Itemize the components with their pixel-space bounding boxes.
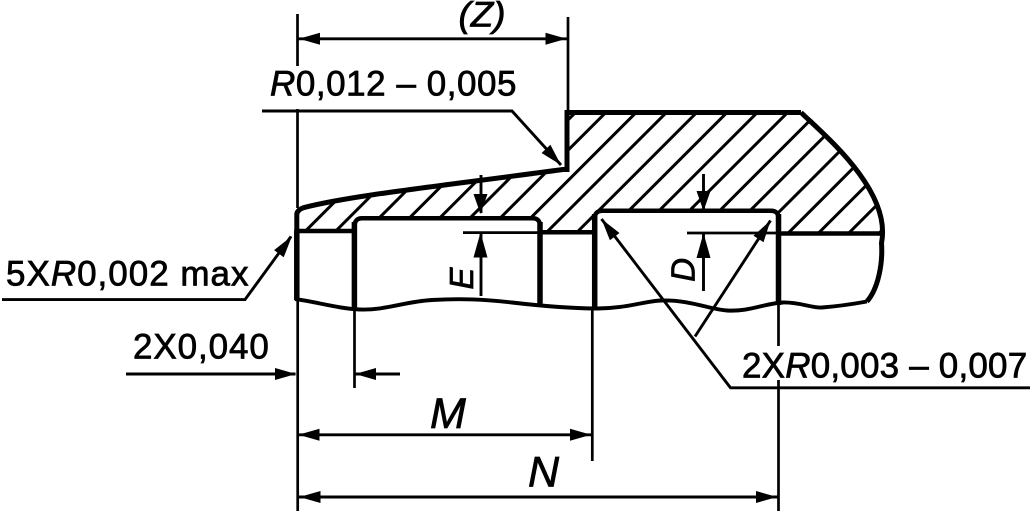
arrowhead M right — [570, 429, 591, 441]
extension line left (x=297) top — [296, 14, 299, 208]
E level line — [463, 231, 558, 234]
label R0,012 - 0,005 — [266, 64, 520, 109]
D arrow shaft top — [702, 174, 705, 210]
arrowhead D down — [697, 191, 711, 211]
svg-text:E: E — [443, 267, 480, 290]
arrowhead N right — [756, 491, 777, 503]
arrowhead M left — [299, 429, 320, 441]
wall left edge below bore — [294, 231, 300, 300]
arrowhead E down — [474, 194, 488, 214]
arrowhead E up — [474, 233, 488, 258]
M dimension line — [298, 433, 592, 436]
wavy break line — [295, 299, 867, 311]
arrowhead Z right — [546, 33, 567, 45]
bore line right — [776, 231, 880, 236]
2X0,040 dim line left — [126, 373, 296, 376]
arrowhead 2X0,040 right — [355, 368, 376, 380]
wall groove2 right — [776, 214, 782, 305]
extension line left (x=297) bottom — [296, 300, 299, 511]
groove2 ceiling — [595, 211, 779, 219]
svg-text:5XR0,002 max: 5XR0,002 max — [6, 255, 250, 294]
R0,012 leader line — [262, 111, 561, 165]
5XR0,002 leader line — [2, 237, 291, 300]
arrowhead 2X0,040 left — [275, 368, 296, 380]
arrowhead N left — [300, 491, 321, 503]
svg-text:(Z): (Z) — [459, 0, 506, 35]
bore land line — [294, 229, 357, 234]
wall groove1 right — [537, 222, 543, 304]
label 2XR0,003 - 0,007 — [738, 346, 1030, 386]
part outline: left edge, sloped face, step, top face — [297, 113, 801, 232]
N dimension line — [299, 496, 778, 499]
extension line x=354 bottom — [353, 308, 356, 388]
D level line — [687, 232, 777, 235]
svg-text:2XR0,003 – 0,007: 2XR0,003 – 0,007 — [742, 347, 1027, 386]
groove1 ceiling — [354, 218, 540, 227]
svg-text:2X0,040: 2X0,040 — [133, 327, 270, 366]
extension line N right (x=778) — [777, 305, 780, 511]
2X0,040 dim line right — [356, 373, 401, 376]
2XR0,003 leader branch — [695, 221, 771, 337]
extension line Z right (x=568) — [567, 17, 570, 112]
svg-text:M: M — [430, 390, 466, 438]
hatching — [226, 95, 1032, 250]
bore line mid — [538, 230, 598, 235]
svg-text:R0,012 – 0,005: R0,012 – 0,005 — [270, 64, 517, 103]
arrowhead 5XR leader — [274, 236, 292, 257]
E arrow shaft bottom — [480, 233, 483, 296]
wall groove2 left — [592, 214, 598, 309]
right concave curve — [801, 113, 883, 302]
svg-text:D: D — [665, 258, 702, 282]
svg-text:N: N — [528, 449, 560, 497]
arrowhead 2XR right corner — [754, 221, 771, 243]
arrowhead Z left — [299, 33, 320, 45]
arrowhead 2XR left corner — [602, 219, 620, 240]
D arrow shaft bottom — [702, 234, 705, 292]
E arrow shaft top — [480, 175, 483, 213]
arrowhead D up — [697, 233, 711, 258]
Z dimension line — [298, 37, 567, 40]
wall groove1 left — [352, 222, 358, 308]
2XR0,003 leader line — [602, 219, 1031, 388]
extension line M right (x=592) — [591, 309, 594, 462]
arrowhead R leader — [542, 145, 561, 165]
